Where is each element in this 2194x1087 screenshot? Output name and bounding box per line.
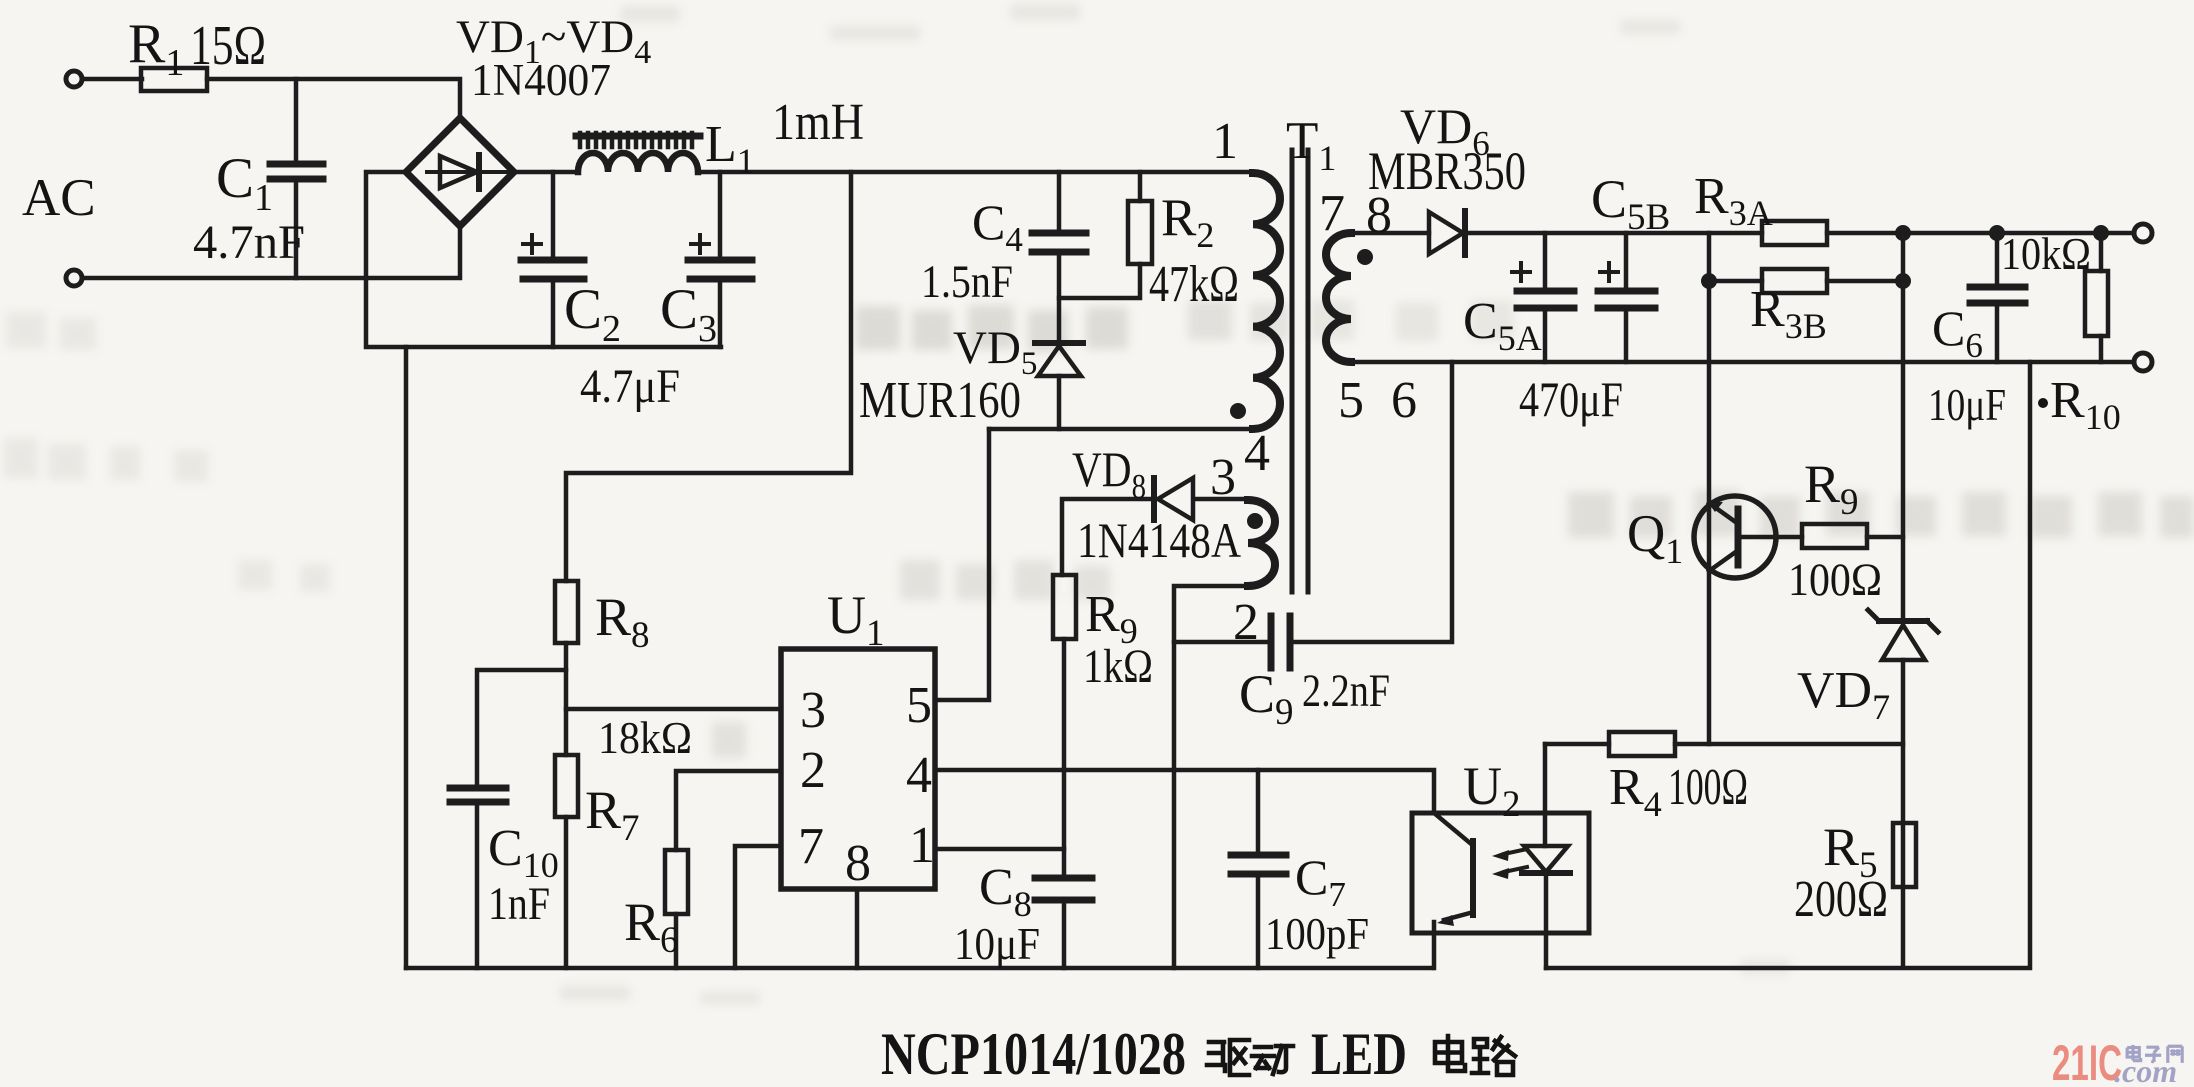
- U2 light arrows: [1504, 849, 1527, 854]
- wire zener branch vertical: [1901, 233, 1906, 967]
- svg-text:100Ω: 100Ω: [1668, 759, 1748, 816]
- wire drain node to transformer pin4: [989, 427, 1253, 432]
- bleed-through faint text row center: [856, 300, 1514, 352]
- svg-text:18kΩ: 18kΩ: [598, 713, 692, 763]
- svg-text:MUR160: MUR160: [859, 372, 1021, 429]
- C3 plus sign: [691, 235, 709, 253]
- svg-text:4.7nF: 4.7nF: [193, 216, 305, 269]
- optocoupler U2 box: [1412, 813, 1589, 933]
- capacitor C4: [1032, 233, 1086, 252]
- title glyph lu: [1472, 1037, 1515, 1075]
- resistor R2: [1128, 201, 1152, 264]
- capacitor C10: [450, 788, 506, 802]
- U2 phototransistor emitter with arrow: [1444, 913, 1470, 920]
- junction dot R3B left: [1701, 273, 1717, 289]
- AC terminal bottom: [66, 270, 82, 286]
- svg-text:1nF: 1nF: [488, 878, 550, 930]
- title glyph qu: [1207, 1040, 1249, 1075]
- wire C1 top lead: [294, 79, 299, 161]
- wire bridge plus corner to L1: [514, 170, 578, 175]
- svg-text:AC: AC: [22, 169, 96, 227]
- svg-text:1N4007: 1N4007: [471, 55, 611, 105]
- wire U2 emitter to primary ground: [1432, 922, 1437, 968]
- C5A plus sign: [1512, 263, 1530, 281]
- capacitor C8: [1035, 878, 1092, 900]
- wire U1 pin1 vcc: [935, 847, 1064, 852]
- svg-text:1N4148A: 1N4148A: [1077, 512, 1241, 568]
- bridge inner diode: [427, 170, 512, 174]
- watermark glyph wang: [2168, 1046, 2182, 1063]
- svg-text:LED: LED: [1311, 1021, 1407, 1087]
- label R10: [2038, 398, 2048, 408]
- svg-text:4: 4: [1244, 425, 1270, 482]
- wire C6 leads: [1995, 233, 2000, 362]
- svg-text:5: 5: [906, 677, 932, 734]
- U2 LED: [1524, 846, 1568, 872]
- secondary phase dot: [1357, 249, 1373, 265]
- bleed-through faint blobs left margin: [4, 312, 330, 592]
- wire R2 top lead: [1138, 172, 1143, 201]
- resistor R3B: [1762, 269, 1827, 293]
- bleed-through faint text row right: [1568, 490, 2194, 538]
- capacitor C9: [1271, 616, 1290, 668]
- output terminal plus: [2134, 224, 2152, 242]
- svg-text:1.5nF: 1.5nF: [921, 256, 1013, 308]
- svg-text:5: 5: [1338, 372, 1364, 429]
- C2 plus sign: [523, 235, 541, 253]
- wire U1 pin8 to ground: [855, 889, 860, 968]
- wire C5A leads: [1543, 233, 1548, 362]
- wire aux pin2 down: [1174, 586, 1248, 968]
- wire output rail after R3A: [1827, 231, 2134, 236]
- wire tee to C10: [477, 670, 566, 787]
- svg-text:100pF: 100pF: [1265, 909, 1369, 959]
- wire sense node down to Q1 base region: [1707, 281, 1712, 744]
- wire C4 bottom to clamp node: [1057, 252, 1062, 342]
- output terminal minus: [2134, 353, 2152, 371]
- wire C9 to secondary return: [1293, 362, 1452, 642]
- junction dot rail at R3B right: [1895, 225, 1911, 241]
- wire AC1 to R1: [82, 77, 142, 82]
- wire R1 to bridge top corner: [207, 79, 460, 118]
- svg-text:8: 8: [845, 835, 871, 892]
- svg-text:3: 3: [1210, 449, 1236, 506]
- primary phase dot: [1230, 403, 1246, 419]
- wire C4 top lead: [1057, 172, 1062, 232]
- wire U1 pin3: [566, 707, 781, 712]
- transformer core: [1292, 150, 1308, 592]
- svg-text:200Ω: 200Ω: [1794, 871, 1888, 928]
- diode VD5: [1035, 340, 1083, 346]
- capacitor C2: [521, 260, 584, 279]
- wire opto LED feed: [1543, 744, 1548, 846]
- wire U1 pin7 to ground: [735, 846, 781, 968]
- C5B plus sign: [1600, 263, 1618, 281]
- U2 phototransistor collector: [1434, 813, 1470, 843]
- wire VD8 cathode to R9aux: [1062, 499, 1151, 575]
- svg-text:47kΩ: 47kΩ: [1149, 256, 1239, 313]
- wire R6 to U1 pin2: [676, 771, 781, 850]
- svg-text:6: 6: [1391, 372, 1417, 429]
- svg-text:3: 3: [800, 682, 826, 739]
- resistor R9 (100): [1802, 524, 1867, 548]
- svg-text:MBR350: MBR350: [1368, 141, 1526, 201]
- capacitor C7: [1231, 855, 1286, 874]
- wire U1 pin4 feedback: [935, 770, 1434, 813]
- inductor L1: [578, 153, 698, 172]
- resistor R7: [555, 755, 578, 817]
- wire VD5 anode to drain wire: [1057, 376, 1062, 429]
- wire R8 to R7: [564, 643, 569, 755]
- wire secondary return rail: [1351, 360, 2134, 365]
- watermark glyph zi: [2145, 1047, 2161, 1062]
- transistor Q1 circle: [1694, 496, 1776, 578]
- svg-text:.com: .com: [2114, 1053, 2177, 1087]
- svg-text:15Ω: 15Ω: [190, 15, 266, 77]
- svg-text:21IC: 21IC: [2052, 1035, 2122, 1087]
- transformer T1 aux winding: [1248, 500, 1275, 586]
- capacitor C5B: [1598, 291, 1655, 308]
- transformer T1 primary winding: [1253, 173, 1280, 429]
- wire R4 row: [1545, 742, 1903, 747]
- resistor R8: [555, 581, 578, 643]
- bleed-through faint blobs under VD8 area: [712, 560, 1110, 758]
- Q1 emitter with arrow: [1709, 503, 1737, 523]
- watermark glyph dian: [2127, 1045, 2141, 1061]
- wire R10 leads: [2099, 233, 2104, 362]
- wire U1 pin5 to drain node: [935, 429, 989, 700]
- wire primary ground left drop: [404, 347, 409, 968]
- wire primary ground rail: [406, 966, 1432, 971]
- aux phase dot: [1247, 513, 1263, 529]
- zener diode VD7: [1879, 618, 1927, 624]
- title glyph dian: [1435, 1036, 1465, 1071]
- svg-text:10kΩ: 10kΩ: [2001, 229, 2091, 279]
- svg-text:10μF: 10μF: [1928, 380, 2006, 430]
- wire R3B branch left: [1709, 233, 1762, 281]
- diode VD6: [1429, 212, 1463, 254]
- wire C1 bottom lead: [294, 181, 299, 278]
- svg-text:NCP1014/1028: NCP1014/1028: [881, 1021, 1186, 1087]
- bridge rectifier VD1-VD4 diamond: [406, 118, 514, 226]
- resistor R9 aux (1k): [1053, 575, 1076, 639]
- svg-text:4: 4: [906, 747, 932, 804]
- capacitor C1: [270, 164, 323, 179]
- svg-text:7: 7: [1319, 185, 1345, 242]
- wire L1 to transformer pin 1: [698, 170, 1253, 175]
- wire bridge minus corner to ground box: [366, 172, 721, 347]
- wire VD6 to output rail: [1465, 231, 1762, 236]
- svg-text:1: 1: [909, 817, 935, 874]
- resistor R4: [1609, 732, 1675, 756]
- resistor R6: [665, 850, 688, 914]
- transformer T1 secondary winding: [1326, 233, 1351, 362]
- junction dot R10 top: [2093, 225, 2109, 241]
- junction dot C6 top: [1989, 225, 2005, 241]
- wire HV rail drop to R8: [566, 172, 851, 581]
- wire R9 to zener branch: [1867, 535, 1903, 540]
- inductor L1 core bar: [576, 133, 700, 140]
- capacitor C6: [1970, 287, 2025, 303]
- resistor R1: [141, 68, 207, 91]
- svg-text:470μF: 470μF: [1519, 371, 1623, 427]
- svg-text:7: 7: [798, 818, 824, 875]
- Q1 base bar: [1735, 509, 1742, 565]
- wire secondary pin8 to VD6: [1351, 231, 1429, 236]
- diode VD8: [1151, 478, 1157, 520]
- bleed-through faint ring: [714, 726, 744, 756]
- wire VD8 anode to aux winding pin3: [1196, 497, 1248, 502]
- capacitor C3: [688, 260, 752, 279]
- wire AC2 to bridge bottom corner: [82, 226, 460, 278]
- title glyph dong: [1252, 1046, 1293, 1074]
- wire C8 to ground rail: [1062, 901, 1067, 968]
- IC U1 box: [781, 649, 935, 889]
- resistor R10: [2085, 271, 2108, 336]
- Q1 collector: [1709, 551, 1737, 571]
- resistor R5: [1893, 823, 1916, 887]
- svg-text:10μF: 10μF: [954, 918, 1040, 969]
- wire C10 to ground rail: [475, 803, 480, 968]
- wire R9aux down to C8 (crosses pin4 wire): [1062, 639, 1067, 877]
- svg-text:4.7μF: 4.7μF: [580, 360, 680, 413]
- svg-text:1mH: 1mH: [772, 94, 864, 151]
- svg-text:2: 2: [1233, 594, 1259, 651]
- capacitor C7 leads: [1256, 770, 1261, 968]
- svg-text:2: 2: [800, 742, 826, 799]
- svg-text:1kΩ: 1kΩ: [1083, 640, 1153, 693]
- wire secondary ground right edge: [1546, 362, 2030, 968]
- svg-text:2.2nF: 2.2nF: [1302, 665, 1390, 717]
- wire pin2 node to C9: [1174, 640, 1268, 645]
- bleed-through smudges top: [560, 4, 1790, 1004]
- wire U2 LED cathode to secondary ground: [1544, 873, 1549, 968]
- wire R3B branch right: [1827, 279, 1903, 284]
- wire C3 leads: [718, 172, 723, 347]
- wire R6 to ground rail: [674, 914, 679, 968]
- wire Q1 base to R9: [1738, 535, 1802, 540]
- svg-text:100Ω: 100Ω: [1788, 554, 1882, 606]
- svg-text:1: 1: [1212, 113, 1238, 170]
- wire C2 leads: [551, 172, 556, 347]
- capacitor C5A: [1517, 291, 1574, 308]
- wire C5B leads: [1624, 233, 1629, 362]
- AC terminal top: [66, 71, 82, 87]
- resistor R3A: [1762, 221, 1827, 245]
- junction dot R3B right: [1895, 273, 1911, 289]
- U2 phototransistor base bar: [1470, 841, 1476, 915]
- wire clamp node to R2 bottom: [1059, 264, 1140, 298]
- wire R7 to ground rail: [564, 817, 569, 968]
